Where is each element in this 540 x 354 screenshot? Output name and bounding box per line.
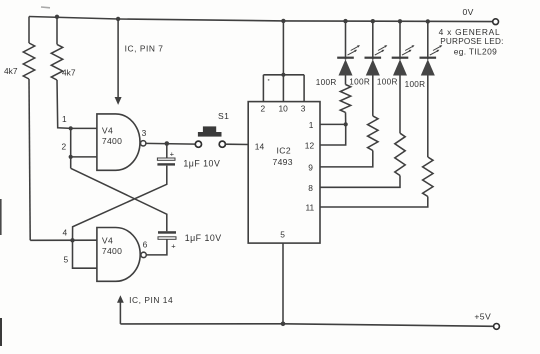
NAND gate U1b V4 7400 <box>97 228 140 282</box>
capacitor C2 1uF 10V <box>146 240 167 255</box>
scan artifacts <box>0 199 2 235</box>
svg-text:+: + <box>171 242 176 251</box>
resistor 100R #4 <box>427 76 429 158</box>
wire gate1 output node <box>146 142 195 145</box>
wire S1 to IC pin 14 <box>225 143 248 145</box>
resistor 100R #2 <box>372 76 374 116</box>
wire IC2 pin 1 / pin 12 to R1 <box>320 123 346 125</box>
svg-text:+: + <box>170 150 175 159</box>
wire tie pins 1-2 <box>70 128 72 168</box>
terminal +5V <box>494 324 500 330</box>
svg-text:14: 14 <box>255 142 265 152</box>
wire IC2 top pins 2 10 3 to rail <box>281 19 285 23</box>
svg-text:5: 5 <box>280 230 285 240</box>
svg-text:11: 11 <box>306 203 315 213</box>
svg-text:IC, PIN 14: IC, PIN 14 <box>129 295 173 305</box>
LED D2 <box>371 19 375 23</box>
wire gate2 pin4 <box>30 239 97 241</box>
resistor R_4k7 right <box>55 15 59 19</box>
svg-text:3: 3 <box>142 128 147 138</box>
svg-text:S1: S1 <box>218 111 229 121</box>
svg-text:7493: 7493 <box>273 157 293 167</box>
svg-text:6: 6 <box>143 240 148 250</box>
wire cross-couple gate1 input to C2 <box>71 168 167 231</box>
arrow IC, PIN 7 <box>116 17 120 21</box>
svg-text:100R: 100R <box>377 78 398 87</box>
svg-text:1: 1 <box>62 114 67 124</box>
svg-text:100R: 100R <box>405 80 426 89</box>
IC2 7493 box <box>248 102 320 244</box>
wire gate1 pin2 <box>71 156 97 158</box>
wire top 0V rail <box>29 17 493 22</box>
wire gate1 pin1 <box>71 127 97 129</box>
resistor R_4k7 left <box>28 17 30 44</box>
svg-text:2: 2 <box>261 103 266 113</box>
svg-text:3: 3 <box>301 103 306 113</box>
svg-text:4: 4 <box>63 227 68 237</box>
svg-text:V4: V4 <box>102 236 113 246</box>
wire IC2 pin 8 to R3 <box>320 176 400 188</box>
svg-text:8: 8 <box>308 183 313 193</box>
switch S1 <box>195 141 201 147</box>
wire bottom +5V rail <box>120 324 493 327</box>
resistor 100R #1 <box>345 76 347 85</box>
svg-text:1μF 10V: 1μF 10V <box>183 158 220 168</box>
svg-text:9: 9 <box>308 162 313 172</box>
wire IC2 pin 5 to bottom rail <box>282 243 284 324</box>
svg-text:7400: 7400 <box>102 136 122 146</box>
svg-text:4k7: 4k7 <box>4 66 18 76</box>
svg-text:+5V: +5V <box>474 312 491 322</box>
svg-text:IC2: IC2 <box>277 146 292 156</box>
svg-text:100R: 100R <box>349 78 370 87</box>
resistor 100R #3 <box>399 76 401 134</box>
LED D3 <box>398 19 402 23</box>
arrow IC, PIN 14 <box>119 301 121 324</box>
capacitor C1 1uF 10V <box>166 144 168 159</box>
wire IC2 pin 11 to R4 <box>320 197 428 208</box>
svg-text:4 x GENERAL: 4 x GENERAL <box>439 27 501 37</box>
LED D1 <box>343 19 347 23</box>
svg-text:100R: 100R <box>316 78 337 87</box>
svg-text:IC, PIN 7: IC, PIN 7 <box>125 44 164 54</box>
svg-text:1: 1 <box>309 120 314 130</box>
NAND gate U1a V4 7400 <box>97 114 140 170</box>
svg-text:0V: 0V <box>463 7 474 17</box>
svg-text:eg. TIL209: eg. TIL209 <box>454 46 497 56</box>
wire gate2 pin5 tie <box>73 240 97 268</box>
LED D4 <box>426 19 430 23</box>
svg-text:1μF 10V: 1μF 10V <box>185 233 222 243</box>
svg-text:7400: 7400 <box>102 246 122 256</box>
wire IC2 pin 9 to R2 <box>320 151 373 167</box>
svg-text:5: 5 <box>64 254 69 264</box>
svg-text:PURPOSE LED:: PURPOSE LED: <box>440 37 504 46</box>
svg-text:2: 2 <box>62 142 67 152</box>
svg-text:V4: V4 <box>102 126 113 136</box>
terminal 0V <box>493 19 499 25</box>
svg-text:4k7: 4k7 <box>62 68 76 78</box>
svg-text:12: 12 <box>305 141 315 151</box>
svg-text:10: 10 <box>279 103 289 113</box>
